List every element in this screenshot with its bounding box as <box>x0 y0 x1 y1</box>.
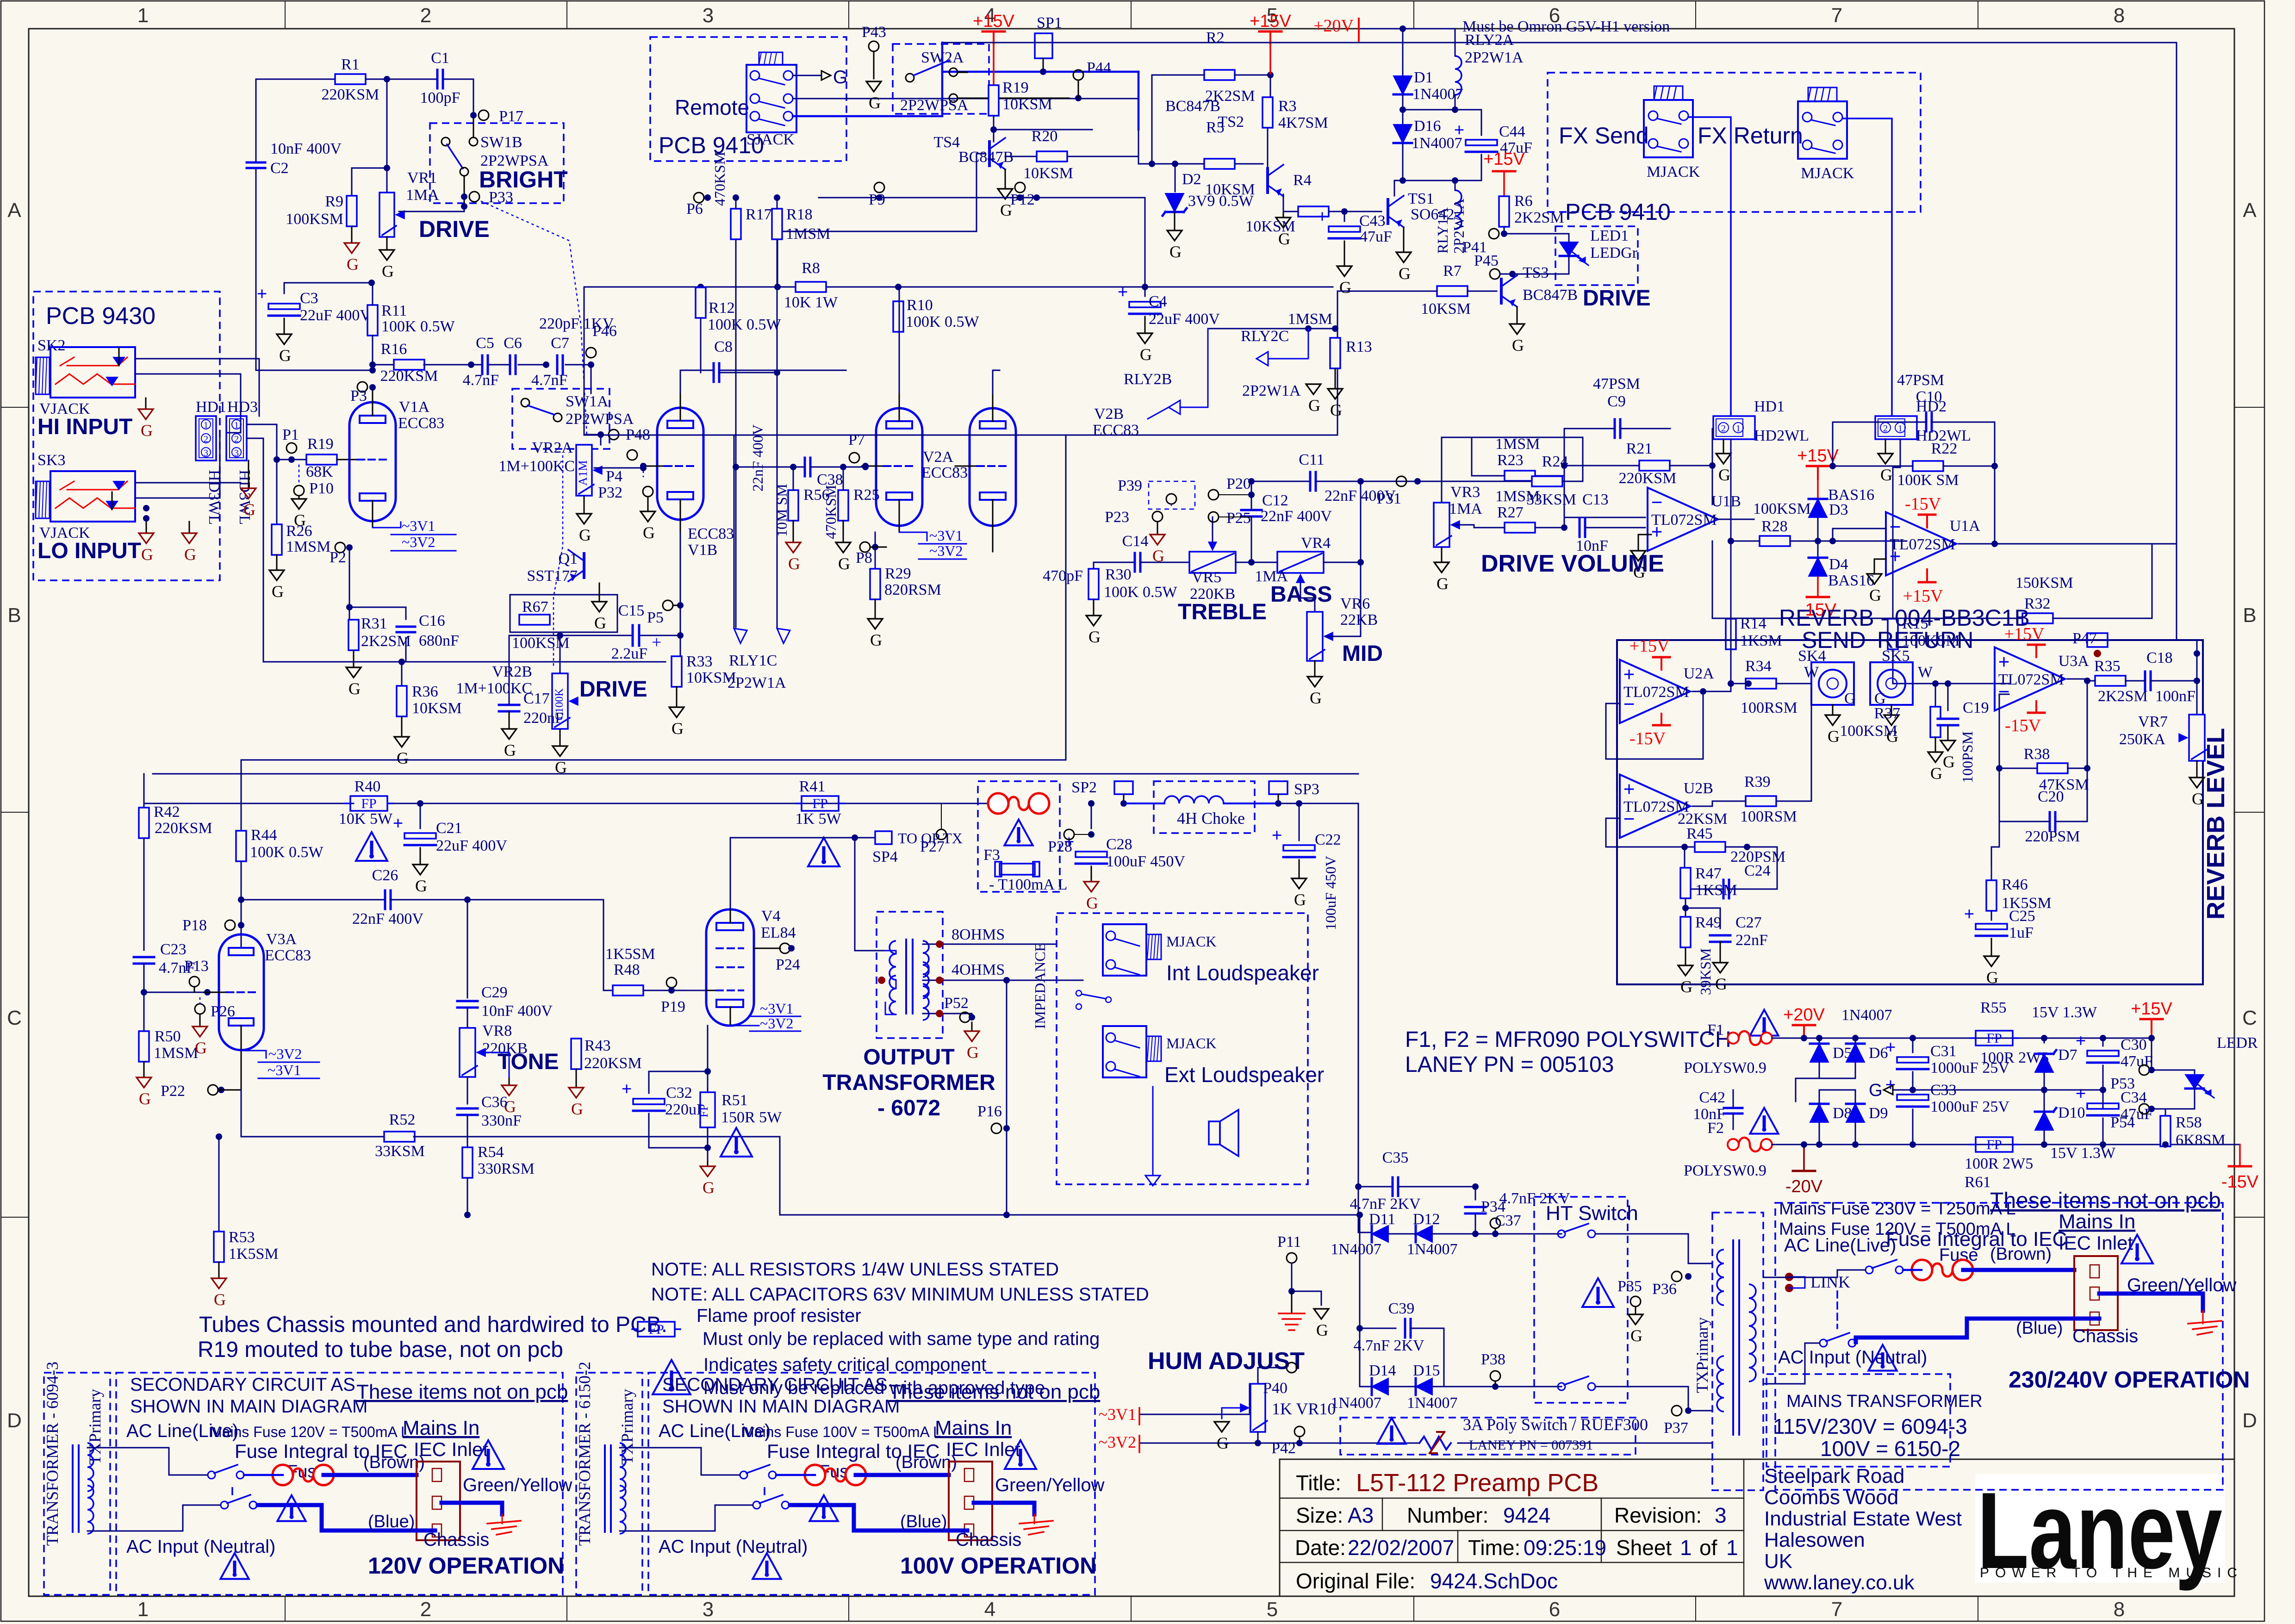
svg-text:D16: D16 <box>1414 118 1441 135</box>
svg-text:R10: R10 <box>907 297 933 314</box>
svg-text:C19: C19 <box>1963 699 1989 716</box>
safety triangle R41 <box>808 838 840 866</box>
svg-text:MAINS TRANSFORMER: MAINS TRANSFORMER <box>1786 1392 1983 1411</box>
pot VR8 TONE <box>460 1028 475 1077</box>
svg-text:C: C <box>7 1007 22 1029</box>
capacitor C31 <box>1912 1038 1914 1052</box>
svg-text:G: G <box>1399 264 1411 283</box>
svg-text:100K 0.5W: 100K 0.5W <box>708 316 782 333</box>
safety legend <box>653 1360 690 1394</box>
svg-text:G: G <box>382 262 394 280</box>
svg-text:AC Input (Neutral): AC Input (Neutral) <box>659 1537 808 1557</box>
wire SJACK mid <box>793 98 1138 100</box>
svg-text:R18: R18 <box>786 206 813 223</box>
wire V2B plate <box>993 370 1000 393</box>
pin P19 <box>666 977 677 988</box>
capacitor C34 <box>2086 1102 2120 1117</box>
+15V flag psu <box>2151 1019 2152 1032</box>
svg-text:G: G <box>1512 336 1524 355</box>
svg-text:Remote: Remote <box>675 95 749 119</box>
svg-text:C13: C13 <box>1582 491 1609 508</box>
resistor R53 <box>218 1137 220 1232</box>
svg-text:R8: R8 <box>802 260 820 277</box>
svg-text:C24: C24 <box>1744 862 1771 879</box>
switch mains L <box>1866 1266 1873 1274</box>
capacitor C19 <box>1947 684 1949 710</box>
svg-text:220nF: 220nF <box>523 709 564 727</box>
svg-text:HD1: HD1 <box>196 398 226 416</box>
svg-text:10KSM: 10KSM <box>1002 96 1052 113</box>
ground VR3 <box>1441 547 1443 562</box>
resistor R67 <box>510 595 617 632</box>
svg-text:R5: R5 <box>1206 119 1225 136</box>
resistor R10 <box>895 284 902 290</box>
svg-text:1: 1 <box>137 1598 149 1621</box>
svg-text:R2: R2 <box>1206 29 1225 46</box>
svg-text:G: G <box>348 679 361 698</box>
svg-text:Original File:: Original File: <box>1296 1569 1415 1593</box>
wire HD3 to P1 <box>247 424 277 460</box>
svg-text:F1, F2 = MFR090 POLYSWITCH: F1, F2 = MFR090 POLYSWITCH <box>1405 1027 1731 1052</box>
mains tx box <box>1766 1374 1950 1467</box>
svg-text:ECC83: ECC83 <box>265 947 311 964</box>
pot VR3 <box>1434 503 1449 547</box>
svg-text:G: G <box>1152 547 1164 565</box>
svg-text:1N4007: 1N4007 <box>1331 1241 1381 1258</box>
svg-text:10KSM: 10KSM <box>1023 165 1073 182</box>
resistor R37 <box>1935 684 1936 707</box>
svg-text:C11: C11 <box>1299 451 1324 468</box>
svg-text:P39: P39 <box>1118 477 1142 494</box>
ground TS2 <box>1283 196 1284 218</box>
svg-text:R38: R38 <box>2024 746 2050 763</box>
wiper VR7 <box>2197 737 2207 738</box>
wires jacks to headers <box>135 359 259 416</box>
svg-text:~3V1: ~3V1 <box>267 1062 301 1078</box>
green yellow 6094-3 <box>442 1503 502 1514</box>
svg-text:P13: P13 <box>184 958 209 975</box>
svg-text:100RSM: 100RSM <box>1741 699 1797 716</box>
svg-text:1MSM: 1MSM <box>786 225 830 243</box>
svg-text:33KSM: 33KSM <box>375 1143 425 1160</box>
svg-text:-15V: -15V <box>2005 716 2041 735</box>
svg-text:TXPrimary: TXPrimary <box>618 1389 636 1465</box>
pin P31 <box>1396 476 1406 486</box>
psu mid wires <box>1796 1063 1819 1078</box>
svg-text:150KSM: 150KSM <box>2015 574 2073 591</box>
svg-text:R13: R13 <box>1346 338 1372 355</box>
svg-text:1N4007: 1N4007 <box>1407 1241 1458 1258</box>
svg-text:P23: P23 <box>1105 509 1129 526</box>
psu mid gnd rail <box>1913 1089 2103 1091</box>
svg-text:G: G <box>643 523 655 542</box>
svg-text:P22: P22 <box>161 1083 185 1100</box>
wire brown 6150-2 <box>856 1473 949 1477</box>
svg-text:~3V2: ~3V2 <box>268 1045 302 1062</box>
svg-text:RLY2A: RLY2A <box>1465 31 1514 49</box>
svg-text:G: G <box>397 749 409 767</box>
svg-text:G: G <box>1308 396 1320 415</box>
svg-text:G: G <box>1169 243 1182 261</box>
svg-text:D3: D3 <box>1829 501 1848 518</box>
pin P35 <box>1630 1296 1641 1307</box>
pin P22 <box>208 1085 218 1095</box>
svg-text:R7: R7 <box>1443 262 1462 280</box>
svg-text:R49: R49 <box>1695 914 1722 931</box>
svg-text:P34: P34 <box>1481 1198 1505 1215</box>
svg-text:8OHMS: 8OHMS <box>952 926 1005 943</box>
svg-text:2P2WPSA: 2P2WPSA <box>566 411 634 428</box>
zener D7 <box>2044 1038 2045 1043</box>
svg-text:R35: R35 <box>2094 658 2121 675</box>
svg-text:ECC83: ECC83 <box>921 464 968 481</box>
svg-text:-15V: -15V <box>1905 494 1941 514</box>
ground U1A <box>1874 559 1886 574</box>
pot VR10 <box>1141 1384 1250 1414</box>
svg-text:47PSM: 47PSM <box>1897 372 1944 389</box>
blue wire 6094-3 <box>258 1505 435 1531</box>
svg-text:8: 8 <box>2114 1598 2125 1621</box>
svg-text:G: G <box>1217 1434 1229 1452</box>
wire grid V3A <box>144 992 211 993</box>
svg-text:C26: C26 <box>372 867 398 884</box>
pot VR7 <box>2196 681 2198 715</box>
pin P24 <box>780 943 790 953</box>
svg-text:47uF: 47uF <box>1360 228 1392 245</box>
svg-text:TXPrimary: TXPrimary <box>1693 1317 1711 1393</box>
svg-text:+15V: +15V <box>1250 12 1291 31</box>
svg-text:~3V2: ~3V2 <box>929 542 963 559</box>
svg-text:1N4007: 1N4007 <box>1841 1007 1892 1024</box>
wire right loop <box>2176 43 2177 640</box>
svg-text:Chassis: Chassis <box>2072 1326 2138 1346</box>
svg-text:P32: P32 <box>598 484 622 501</box>
svg-text:2.2uF: 2.2uF <box>611 645 647 662</box>
diode D14 <box>1372 1378 1388 1395</box>
psu top rail <box>1772 1038 2152 1039</box>
ground R9 dark red <box>351 226 353 243</box>
svg-text:2: 2 <box>1721 423 1726 434</box>
svg-text:D4: D4 <box>1829 556 1848 573</box>
svg-text:R61: R61 <box>1965 1174 1991 1191</box>
svg-text:D11: D11 <box>1369 1211 1395 1228</box>
pin P12 <box>1015 182 1025 193</box>
diode D1 <box>1402 29 1404 75</box>
dashed box loudspeakers <box>1057 913 1308 1184</box>
svg-text:10M SM: 10M SM <box>773 484 790 537</box>
svg-text:22nF 400V: 22nF 400V <box>1261 508 1332 525</box>
svg-text:R37: R37 <box>1874 705 1900 722</box>
svg-text:1000uF 25V: 1000uF 25V <box>1930 1098 2009 1115</box>
triode V3A <box>219 934 264 1050</box>
impedance switch <box>1076 990 1082 996</box>
svg-text:P33: P33 <box>489 189 513 206</box>
wire to VR1 <box>386 79 388 198</box>
svg-text:R51: R51 <box>721 1092 748 1109</box>
resistor R21 <box>1639 460 1670 471</box>
svg-text:G: G <box>195 1039 207 1057</box>
svg-text:250KA: 250KA <box>2119 731 2166 748</box>
riser to C11 <box>1324 481 1361 562</box>
svg-text:100uF 450V: 100uF 450V <box>1106 853 1185 870</box>
svg-text:These items not on pcb: These items not on pcb <box>889 1381 1100 1403</box>
svg-text:ECC83: ECC83 <box>688 525 734 542</box>
svg-text:100KSM: 100KSM <box>286 211 343 228</box>
relay coil RLY1A <box>1455 190 1462 229</box>
svg-text:NOTE: ALL RESISTORS 1/4W UNLES: NOTE: ALL RESISTORS 1/4W UNLESS STATED <box>651 1259 1059 1280</box>
svg-text:4.7nF: 4.7nF <box>463 372 499 389</box>
svg-text:P20: P20 <box>1226 475 1251 492</box>
svg-text:R41: R41 <box>799 778 826 795</box>
svg-text:1MA: 1MA <box>406 187 439 204</box>
svg-text:RLY1A: RLY1A <box>1434 207 1451 254</box>
svg-text:Flame proof resister: Flame proof resister <box>697 1306 861 1326</box>
svg-text:PCB 9410: PCB 9410 <box>1565 199 1671 225</box>
svg-text:LINK: LINK <box>1810 1273 1850 1291</box>
svg-text:DRIVE: DRIVE <box>579 677 647 702</box>
resistor R49 <box>1685 898 1686 918</box>
svg-text:6K8SM: 6K8SM <box>2176 1132 2226 1149</box>
svg-text:100KSM: 100KSM <box>1840 722 1897 740</box>
pin P43 <box>869 41 879 51</box>
svg-text:Chassis: Chassis <box>423 1530 489 1550</box>
HT column <box>1358 803 1359 1232</box>
svg-text:HT Switch: HT Switch <box>1546 1202 1638 1225</box>
svg-text:R53: R53 <box>229 1229 255 1246</box>
svg-text:330RSM: 330RSM <box>478 1160 535 1177</box>
svg-text:R20: R20 <box>1032 128 1058 145</box>
svg-text:2: 2 <box>420 4 431 27</box>
heater labels V1A <box>373 522 401 528</box>
pin P2 <box>335 542 345 553</box>
svg-text:4K7SM: 4K7SM <box>1278 114 1328 131</box>
svg-text:68K: 68K <box>306 463 333 480</box>
output transformer <box>905 940 907 1014</box>
safety tri fuse 6150-2 <box>809 1495 838 1521</box>
earth red P11 <box>1291 1291 1293 1313</box>
svg-text:IEC Inlet: IEC Inlet <box>946 1438 1020 1460</box>
svg-text:1: 1 <box>234 420 239 430</box>
svg-text:Mains In: Mains In <box>403 1417 479 1439</box>
svg-text:D1: D1 <box>1414 69 1433 86</box>
svg-text:220KSM: 220KSM <box>380 367 438 385</box>
green yellow 6150-2 <box>974 1503 1034 1514</box>
svg-text:9424: 9424 <box>1503 1503 1550 1527</box>
svg-text:R12: R12 <box>709 299 735 317</box>
svg-text:DRIVE VOLUME: DRIVE VOLUME <box>1481 550 1664 577</box>
diode D4 <box>1817 541 1819 557</box>
svg-text:(Blue): (Blue) <box>368 1512 415 1531</box>
svg-text:Number:: Number: <box>1407 1503 1488 1527</box>
dashed line mid <box>1836 1291 1838 1328</box>
wire LED top <box>1504 234 1569 242</box>
dashed box choke <box>1154 781 1255 833</box>
svg-text:R31: R31 <box>361 615 387 632</box>
opamp U1A <box>1886 512 1956 576</box>
pin P28 <box>1064 829 1074 840</box>
resistor R58 <box>2152 1109 2165 1117</box>
capacitor C21 <box>417 800 423 807</box>
transformer sym 6094-3 <box>72 1445 74 1532</box>
svg-text:220PSM: 220PSM <box>2025 828 2080 845</box>
node R1-C1 <box>384 76 390 82</box>
wire cathode node <box>707 1026 709 1092</box>
svg-text:SECONDARY CIRCUIT AS: SECONDARY CIRCUIT AS <box>662 1375 888 1395</box>
svg-text:G: G <box>1718 466 1730 484</box>
svg-text:−: − <box>1889 516 1901 538</box>
svg-text:1MA: 1MA <box>1449 500 1482 517</box>
svg-text:1K VR10: 1K VR10 <box>1272 1400 1336 1418</box>
transistor TS2 <box>1266 168 1269 193</box>
svg-text:1uF: 1uF <box>2009 924 2034 941</box>
U1A out <box>1959 466 1995 544</box>
svg-text:C21: C21 <box>436 820 462 837</box>
svg-text:G: G <box>243 500 255 519</box>
svg-text:G: G <box>1715 975 1727 993</box>
blue wire 6150-2 <box>790 1505 967 1531</box>
svg-text:1M+100KC: 1M+100KC <box>498 458 575 475</box>
wire R9 branch <box>352 168 387 198</box>
svg-text:C43: C43 <box>1359 212 1386 230</box>
svg-text:R46: R46 <box>2002 876 2028 893</box>
svg-text:Title:: Title: <box>1296 1471 1341 1495</box>
svg-text:G: G <box>184 545 196 564</box>
svg-text:15V 1.3W: 15V 1.3W <box>2032 1004 2097 1021</box>
ground SK5 <box>1891 705 1892 715</box>
wiper VR2A wire <box>594 467 643 469</box>
svg-text:G: G <box>214 1290 226 1309</box>
svg-text:C7: C7 <box>551 335 569 352</box>
ground VR1 <box>386 237 388 250</box>
capacitor C32 <box>649 1071 708 1093</box>
choke 4H <box>1126 803 1164 804</box>
svg-text:C23: C23 <box>160 941 187 958</box>
svg-text:+: + <box>2076 1083 2086 1104</box>
TS1 collector <box>1394 180 1403 196</box>
svg-text:R44: R44 <box>251 827 277 844</box>
svg-text:Green/Yellow: Green/Yellow <box>995 1475 1105 1495</box>
svg-text:2K2SM: 2K2SM <box>2098 688 2148 705</box>
pin P46 <box>586 348 596 358</box>
svg-text:G: G <box>1339 278 1351 297</box>
svg-text:C3: C3 <box>300 290 318 307</box>
svg-text:P44: P44 <box>1087 59 1111 76</box>
svg-text:-20V: -20V <box>1785 1177 1823 1196</box>
svg-text:3V9 0.5W: 3V9 0.5W <box>1188 193 1254 210</box>
svg-text:G: G <box>1828 727 1840 746</box>
svg-text:LEDR: LEDR <box>2217 1034 2258 1052</box>
svg-text:P5: P5 <box>647 609 664 626</box>
svg-text:33KSM: 33KSM <box>1526 491 1576 508</box>
svg-text:P37: P37 <box>1664 1419 1688 1437</box>
svg-text:of: of <box>1699 1536 1717 1560</box>
svg-text:P42: P42 <box>1271 1440 1296 1457</box>
svg-text:ECC83: ECC83 <box>1093 422 1139 439</box>
svg-text:PCB 9430: PCB 9430 <box>46 303 155 330</box>
svg-text:R25: R25 <box>853 486 880 504</box>
resistor R12 <box>697 284 704 290</box>
svg-text:P25: P25 <box>1226 510 1251 527</box>
svg-text:10KSM: 10KSM <box>1421 300 1471 317</box>
svg-text:R24: R24 <box>1542 453 1568 470</box>
switch mains N <box>1820 1339 1827 1347</box>
safety triangle C21 <box>356 832 387 861</box>
svg-text:(Blue): (Blue) <box>2016 1319 2063 1338</box>
pot VR1 DRIVE <box>379 193 394 237</box>
wire cathode V1B <box>680 532 681 657</box>
wire C2 to grid node <box>256 281 373 370</box>
jack SJACK <box>746 65 796 132</box>
svg-text:2P2W1A: 2P2W1A <box>728 674 786 691</box>
svg-text:G: G <box>141 545 153 564</box>
svg-text:A1M: A1M <box>576 460 590 486</box>
svg-text:DRIVE: DRIVE <box>419 216 490 242</box>
fuse mains <box>1912 1260 1932 1280</box>
resistor R44 <box>241 760 242 832</box>
svg-text:P10: P10 <box>309 480 334 497</box>
svg-text:G: G <box>1680 977 1692 996</box>
dashed box OPT <box>877 912 943 1038</box>
svg-text:R17: R17 <box>746 206 772 223</box>
svg-text:BC847B: BC847B <box>1165 98 1220 115</box>
svg-text:R54: R54 <box>478 1144 504 1161</box>
svg-text:V1B: V1B <box>688 541 717 559</box>
svg-text:P38: P38 <box>1481 1351 1505 1368</box>
svg-text:Industrial Estate West: Industrial Estate West <box>1764 1507 1962 1530</box>
svg-text:G: G <box>594 614 606 632</box>
svg-text:R19: R19 <box>1002 79 1029 96</box>
switch SW2A <box>906 74 914 82</box>
dashed box SW1A <box>512 389 610 449</box>
pot VR5 TREBLE <box>1189 552 1236 573</box>
svg-text:P28: P28 <box>1048 838 1072 855</box>
pin P5 <box>663 600 673 610</box>
capacitor C27 <box>1685 908 1720 928</box>
svg-text:FP: FP <box>697 1104 710 1118</box>
svg-text:LANEY PN = 005103: LANEY PN = 005103 <box>1405 1052 1614 1077</box>
svg-text:G: G <box>1330 401 1342 419</box>
svg-text:G: G <box>703 1178 715 1197</box>
transistor TS4 <box>988 142 991 166</box>
collector join <box>994 129 1092 131</box>
safety triangle IEC <box>2121 1235 2153 1263</box>
svg-text:680nF: 680nF <box>419 632 459 649</box>
svg-text:G: G <box>1869 1081 1883 1100</box>
wiper VR8 to ground <box>478 1052 509 1078</box>
svg-text:G: G <box>1140 345 1152 364</box>
svg-text:10nF: 10nF <box>1693 1106 1725 1123</box>
LINK <box>1785 1273 1793 1281</box>
resistor R5 <box>1204 159 1235 169</box>
resistor R19 <box>993 44 995 86</box>
svg-text:G: G <box>833 67 847 87</box>
svg-text:V2A: V2A <box>923 448 954 466</box>
capacitor C15 <box>632 625 640 646</box>
capacitor C6 <box>509 355 516 374</box>
svg-text:100R 2W5: 100R 2W5 <box>1980 1049 2049 1066</box>
diode D3 <box>1817 479 1819 498</box>
wire brown 6094-3 <box>323 1473 417 1477</box>
svg-text:4: 4 <box>984 1598 995 1621</box>
capacitor C8 <box>700 318 702 373</box>
svg-text:P8: P8 <box>856 549 872 566</box>
svg-text:U2A: U2A <box>1684 665 1715 682</box>
svg-text:NOTE: ALL CAPACITORS 63V MINIM: NOTE: ALL CAPACITORS 63V MINIMUM UNLESS … <box>651 1284 1149 1305</box>
wire to OPT <box>855 838 885 951</box>
resistor R6 <box>1503 171 1505 196</box>
+20V flag <box>1803 1025 1805 1038</box>
svg-text:2P2WPSA: 2P2WPSA <box>900 97 969 114</box>
